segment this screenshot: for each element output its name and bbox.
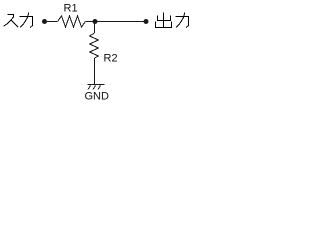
- svg-text:GND: GND: [85, 91, 110, 103]
- svg-text:R2: R2: [104, 53, 118, 65]
- svg-text:R1: R1: [64, 3, 78, 15]
